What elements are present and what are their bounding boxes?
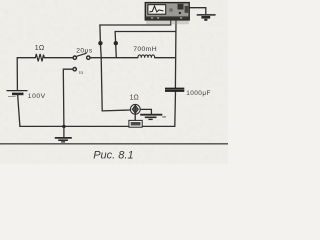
wire right vertical capacitor branch: [175, 20, 176, 127]
svg-text:20μs: 20μs: [76, 48, 93, 55]
svg-text:Рис. 8.1: Рис. 8.1: [93, 150, 133, 162]
node A junction dot: [98, 41, 102, 45]
shunt box R2 on bottom rail: [129, 120, 142, 127]
ground G2 right of meter: [140, 115, 162, 120]
svg-text:то: то: [79, 70, 84, 75]
wire meter to shunt box: [134, 114, 136, 120]
oscilloscope terminal strip: [146, 16, 189, 19]
node B junction dot: [114, 41, 118, 45]
wire scope to top-right ground: [189, 8, 206, 14]
svg-text:1000μF: 1000μF: [186, 90, 211, 97]
ground G1 mid-left: [55, 127, 72, 142]
svg-text:1Ω: 1Ω: [130, 94, 139, 101]
wire bottom branch to meter: [102, 109, 130, 112]
wire scope channel B horizontal: [115, 31, 176, 33]
scan background: [0, 0, 228, 164]
resistor R1 zigzag: [35, 54, 44, 62]
oscilloscope panel knobs: [178, 4, 184, 10]
wire switch lower throw: [63, 69, 73, 126]
oscilloscope screen: [148, 5, 166, 15]
battery V1: [7, 91, 28, 97]
svg-text:1Ω: 1Ω: [35, 43, 45, 52]
oscilloscope trace: [149, 6, 163, 12]
wire bottom rail: [20, 125, 175, 127]
scan smear under oscilloscope: [146, 21, 189, 25]
junction dot ground / switch branch: [62, 125, 65, 128]
figure bottom rule: [0, 143, 228, 145]
oscilloscope XSC1 body: [145, 3, 189, 20]
switch S1: [73, 53, 90, 71]
svg-text:700mH: 700mH: [133, 46, 157, 53]
wire node A vertical drop: [100, 25, 102, 111]
ground G3 top-right scope: [197, 15, 216, 20]
wire meter to right ground: [140, 109, 151, 113]
wire main top horizontal: [17, 57, 175, 59]
capacitor C1 plates: [165, 89, 184, 91]
wire node B vertical stub: [115, 32, 116, 58]
meter M1 circle with arrow: [130, 104, 140, 114]
inductor L1 coil: [138, 55, 155, 58]
wire scope channel A horizontal: [100, 20, 171, 25]
noise speck near ground G2: [162, 116, 166, 118]
svg-text:100V: 100V: [28, 93, 46, 100]
wire left vertical battery branch: [17, 58, 20, 127]
